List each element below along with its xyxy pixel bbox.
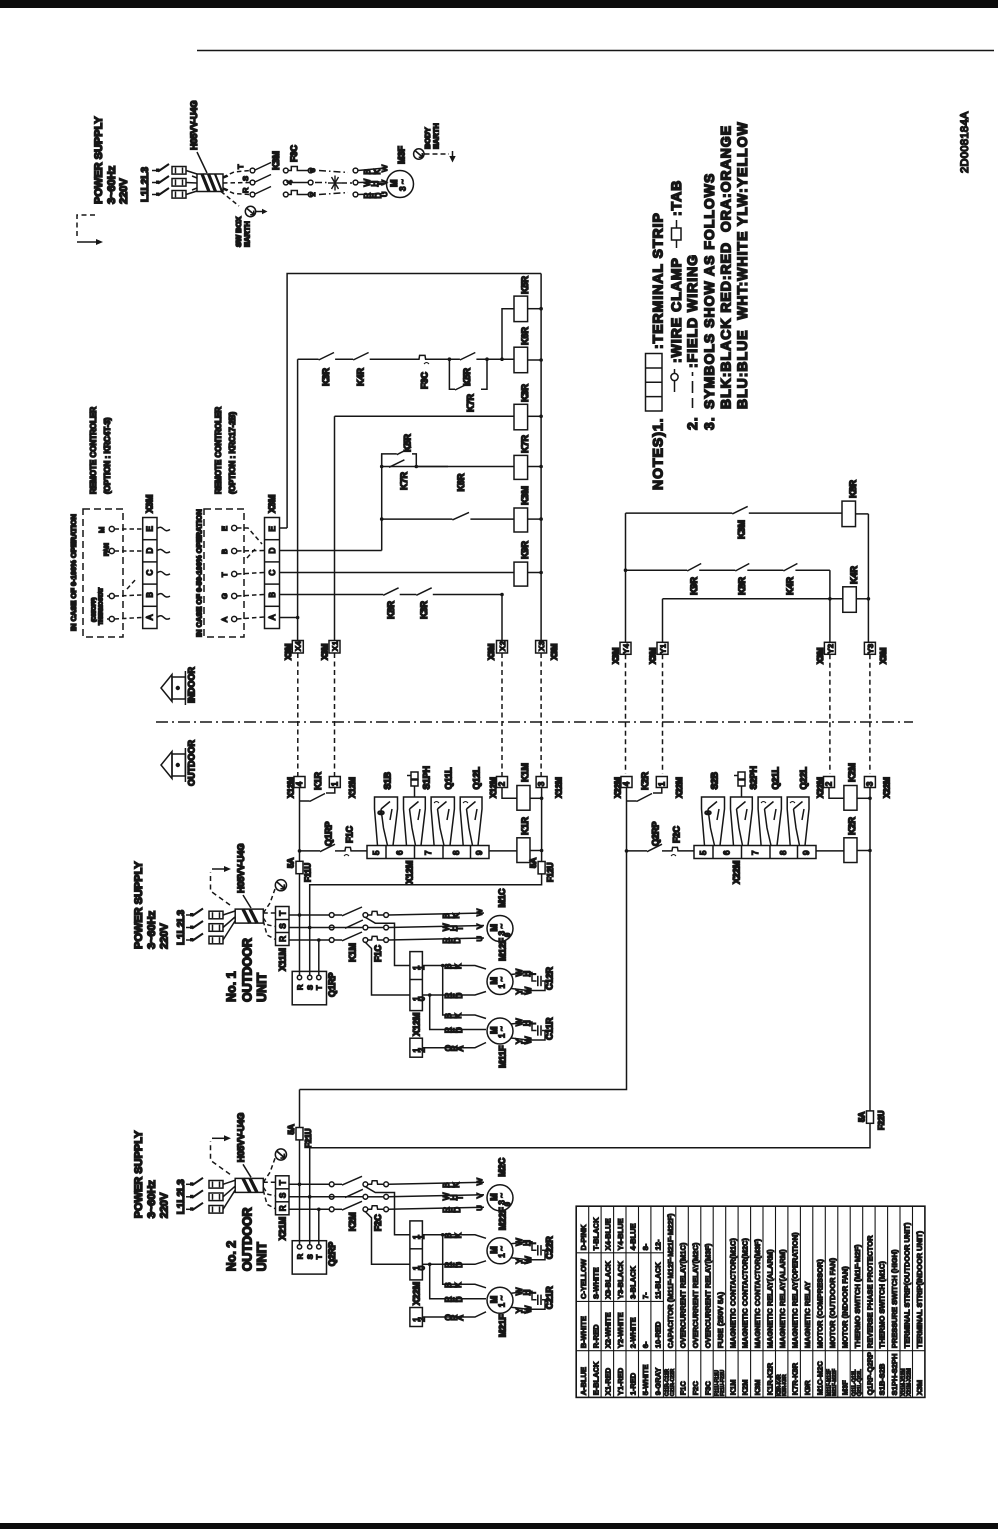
node bus junctions: [868, 797, 872, 853]
fan motor M22F: [487, 1238, 513, 1264]
legend row Q11L-Q12L: [851, 1244, 862, 1396]
svg-text:X3M: X3M: [267, 494, 277, 513]
svg-text:S1PH: S1PH: [422, 766, 432, 790]
contact K5R (rung1): [460, 353, 475, 387]
svg-text:X: X: [498, 646, 507, 651]
wire E row: [280, 527, 288, 529]
svg-text:B: B: [146, 592, 155, 597]
legend row K9R: [803, 1281, 812, 1395]
terminal X12M 4: [287, 777, 305, 799]
svg-text:X3M: X3M: [612, 647, 621, 664]
terminal X22M 2: [816, 777, 835, 799]
svg-text:2: 2: [826, 644, 835, 648]
contact K1R (alarm): [300, 771, 335, 850]
disconnect switch L2: [152, 176, 169, 184]
tap row3 to terminal 10: [365, 1212, 410, 1265]
svg-text:MAGNETIC CONTACTOR(M2C): MAGNETIC CONTACTOR(M2C): [741, 1238, 750, 1349]
svg-text:H05VV-U4G: H05VV-U4G: [236, 843, 246, 893]
svg-text:TERMINAL STRIP(OUTDOOR UNIT): TERMINAL STRIP(OUTDOOR UNIT): [903, 1222, 912, 1348]
svg-text:C-YELLOW: C-YELLOW: [579, 1258, 588, 1299]
svg-text:OUTDOOR: OUTDOOR: [187, 740, 197, 786]
node bus junctions: [540, 797, 544, 853]
svg-text:K4R: K4R: [849, 565, 859, 584]
disconnect switch row1 (unit1): [186, 909, 223, 919]
tap row1 to terminal 11: [365, 1187, 410, 1235]
svg-text:RED: RED: [442, 938, 462, 944]
svg-text:R: R: [278, 1205, 287, 1211]
svg-text:K5R: K5R: [403, 433, 413, 452]
svg-text:RED: RED: [444, 1262, 464, 1268]
svg-text:Y: Y: [658, 649, 667, 654]
terminal X22M 1: [656, 777, 684, 799]
wire color labels (unit2 compressor): [442, 1182, 464, 1213]
svg-text:G: G: [220, 593, 229, 599]
contactor coil K1M: [502, 763, 542, 810]
relay coil K7R: [514, 434, 541, 479]
svg-text:C: C: [268, 570, 277, 576]
phase sense wires to Q1RP: [300, 915, 319, 976]
label No.1 OUTDOOR UNIT: [225, 1207, 270, 1271]
terminal X12M 1: [329, 777, 357, 799]
svg-text:1: 1: [658, 644, 667, 648]
tap row1 to terminal 11: [365, 917, 410, 965]
rc2 dashed wiring to strip: [237, 528, 264, 619]
svg-text:3: 3: [399, 186, 408, 191]
rc1 terminals: [109, 526, 114, 621]
label No.1 OUTDOOR UNIT: [225, 938, 270, 1002]
svg-text:MOTOR (INDOOR FAN): MOTOR (INDOOR FAN): [840, 1266, 849, 1348]
terminal strip X22M 5-9: [694, 846, 816, 859]
fuse L2: [172, 179, 186, 187]
svg-text:C11R: C11R: [545, 1017, 555, 1040]
svg-text:~: ~: [498, 924, 507, 929]
svg-text:E: E: [220, 526, 229, 531]
svg-text:H05VV-U4G: H05VV-U4G: [189, 100, 199, 150]
svg-text:C21R-C22R: C21R-C22R: [670, 1368, 676, 1396]
pressure switch S2PH: [731, 766, 759, 846]
svg-text:RED: RED: [442, 1207, 462, 1213]
disconnect switch row3 (unit2): [186, 1203, 223, 1213]
field wiring dashed arrow (unit2): [211, 1135, 232, 1174]
svg-text:IN CASE OF 0-50-100% OPERATION: IN CASE OF 0-50-100% OPERATION: [195, 509, 204, 637]
svg-text:BLK: BLK: [444, 1282, 463, 1288]
svg-text:X22M: X22M: [883, 777, 892, 798]
svg-text:Q21L-Q22L: Q21L-Q22L: [857, 1369, 863, 1396]
svg-text:Q2RP: Q2RP: [651, 821, 661, 846]
svg-text:BLK: BLK: [444, 1013, 463, 1019]
label H05VV-U4G (unit1): [236, 843, 251, 908]
svg-text:3~60Hz: 3~60Hz: [146, 910, 158, 949]
svg-text:E: E: [268, 526, 277, 531]
rung 5 wire C row: [280, 572, 515, 574]
svg-text:(OPTION : KRC17-2B): (OPTION : KRC17-2B): [228, 411, 237, 494]
svg-text:K9R: K9R: [803, 1380, 812, 1396]
svg-text:MAGNETIC RELAY(ALARM): MAGNETIC RELAY(ALARM): [778, 1249, 787, 1348]
svg-text:INDOOR: INDOOR: [187, 666, 197, 703]
svg-text:A: A: [268, 614, 277, 620]
svg-text:F1C: F1C: [373, 944, 383, 962]
svg-text:K1R: K1R: [520, 816, 530, 835]
svg-text:B-WHITE: B-WHITE: [579, 1316, 588, 1348]
svg-text:BLK: BLK: [444, 1232, 463, 1238]
contact K8R: [735, 564, 749, 596]
svg-text:M22F: M22F: [498, 1207, 508, 1231]
thermo switch Q11L: [431, 767, 454, 846]
svg-text:EARTH: EARTH: [243, 221, 252, 247]
svg-text:S2B: S2B: [710, 771, 720, 789]
svg-text:X3M: X3M: [284, 643, 293, 660]
svg-text:S: S: [241, 176, 250, 181]
svg-text:6: 6: [396, 850, 405, 855]
wires terminals to fans (unit1): [422, 966, 486, 1048]
terminal strip X12M 5-9: [367, 846, 489, 859]
svg-text:5A: 5A: [287, 1124, 296, 1134]
wires to compressor (unit1): [389, 913, 485, 940]
legend row M11F-M12F: [827, 1257, 838, 1396]
svg-text:OUTDOOR: OUTDOOR: [241, 1207, 255, 1271]
svg-text:K1M: K1M: [728, 1379, 737, 1395]
svg-text:(ON/OFF): (ON/OFF): [92, 597, 98, 622]
relay coil K5R: [514, 275, 541, 321]
svg-text:K2R: K2R: [847, 816, 857, 835]
svg-text:A: A: [146, 614, 155, 620]
contact K3R: [319, 353, 334, 387]
contact K2R (alarm): [627, 771, 662, 850]
svg-text:8: 8: [779, 850, 788, 855]
svg-text:Q21L: Q21L: [771, 766, 781, 789]
svg-text:R: R: [241, 187, 250, 193]
svg-text:X3-BLACK: X3-BLACK: [604, 1260, 613, 1299]
svg-text:K6R: K6R: [520, 326, 530, 345]
wire vertical to X4: [297, 359, 299, 640]
capacitor C12R: [511, 966, 555, 994]
legend wire codes col 3: [604, 1218, 613, 1395]
terminal X22M 12: [410, 1308, 427, 1327]
svg-text:Y: Y: [826, 649, 835, 654]
svg-text:S1B: S1B: [383, 771, 393, 789]
svg-text:RED: RED: [444, 1027, 464, 1033]
svg-text:1: 1: [330, 781, 339, 786]
svg-text:No. 2: No. 2: [225, 1241, 239, 1272]
legend row K1M: [728, 1238, 737, 1396]
svg-text:Y: Y: [866, 649, 875, 654]
node rung1 junctions: [448, 357, 504, 361]
svg-text:K1M: K1M: [348, 943, 358, 962]
svg-text:~: ~: [498, 977, 507, 982]
svg-text:F11U: F11U: [304, 863, 313, 882]
terminal strip X3M (rc1): [143, 518, 157, 629]
svg-text:F2C: F2C: [373, 1214, 383, 1232]
legend row K1R-K2R: [766, 1249, 775, 1395]
node rung2 junction: [624, 568, 628, 572]
svg-text:M3F: M3F: [840, 1380, 849, 1395]
label BODY EARTH: [423, 123, 441, 149]
svg-text:W: W: [380, 164, 389, 172]
svg-text:ORA: ORA: [444, 1045, 465, 1051]
right bus wire: [869, 788, 871, 1111]
svg-text:T-BLACK: T-BLACK: [591, 1217, 600, 1250]
legend row F1C: [678, 1242, 687, 1395]
svg-text:MOTOR (COMPRESSOR): MOTOR (COMPRESSOR): [815, 1259, 824, 1349]
terminal strip X12M 11/10: [410, 952, 427, 1011]
svg-text:W: W: [475, 908, 484, 916]
fan wire color labels (M11F): [444, 1013, 465, 1052]
dashed leads clamp to strip (unit2): [263, 1182, 275, 1209]
fuse F21U 5A: [287, 1090, 313, 1185]
legend wire codes col 4: [616, 1218, 625, 1395]
wire vertical D-branch: [280, 454, 382, 551]
svg-text:X21M-X22M: X21M-X22M: [907, 1368, 913, 1396]
svg-text:X2-WHITE: X2-WHITE: [604, 1312, 613, 1348]
contact Q1RP + fuse F1C on rung: [300, 821, 368, 856]
divider dash-dot line: [156, 721, 913, 723]
terminal X12M 12: [410, 1038, 427, 1057]
svg-text:3: 3: [866, 644, 875, 648]
svg-text:K2M: K2M: [348, 1212, 358, 1231]
svg-text:K3R: K3R: [520, 383, 530, 402]
terminal Y2: [816, 642, 835, 664]
svg-text:1: 1: [498, 1253, 507, 1258]
node rung junction: [298, 849, 302, 853]
svg-text:POWER SUPPLY: POWER SUPPLY: [133, 861, 145, 949]
svg-text:X12M: X12M: [555, 777, 564, 798]
motor M3F: [387, 171, 414, 198]
reverse phase protector Q2RP: [292, 1241, 337, 1274]
label SW BOX EARTH: [234, 217, 252, 247]
svg-text:X12M: X12M: [489, 777, 498, 798]
svg-text:M21F-M22F: M21F-M22F: [832, 1369, 838, 1396]
svg-text:1: 1: [657, 781, 666, 786]
svg-text:OUTDOOR: OUTDOOR: [241, 938, 255, 1002]
svg-text:X3M: X3M: [816, 647, 825, 664]
svg-text:K7R-K8R: K7R-K8R: [791, 1362, 800, 1395]
disconnect switch row1 (unit2): [186, 1178, 223, 1188]
legend wire codes col 5: [629, 1223, 638, 1395]
svg-text:Q1RP-Q2RP: Q1RP-Q2RP: [865, 1352, 874, 1395]
svg-text:F2C: F2C: [691, 1381, 700, 1396]
svg-text:F1C: F1C: [678, 1381, 687, 1396]
svg-text:9: 9: [802, 850, 811, 855]
compressor terminal labels W V U: [475, 1177, 484, 1211]
field wiring dashed arrow (unit1): [211, 866, 232, 905]
page top black bar: [0, 0, 998, 8]
svg-text:TERMINAL STRIP(INDOOR UNIT): TERMINAL STRIP(INDOOR UNIT): [915, 1230, 924, 1348]
node rung3 junctions: [380, 465, 418, 469]
svg-text:V: V: [475, 924, 484, 929]
fan wire color labels (M21F): [444, 1282, 465, 1321]
svg-text:R: R: [295, 984, 304, 990]
wires terminals to fans (unit2): [422, 1235, 486, 1317]
legend row X3M: [915, 1230, 924, 1395]
relay coil K6R: [514, 326, 541, 372]
svg-text:11-BLACK: 11-BLACK: [654, 1262, 663, 1299]
overcurrent relay F3C elements: [288, 167, 308, 195]
notes line 2: wire clamp symbol: [671, 369, 678, 392]
capacitor C21R: [511, 1286, 555, 1314]
svg-text:K4R: K4R: [785, 576, 795, 595]
right rail wire: [867, 514, 869, 642]
terminal strip symbol: [646, 354, 663, 412]
indoor house icon: [161, 671, 185, 705]
svg-text:X12M: X12M: [412, 1012, 422, 1036]
svg-text:K3M: K3M: [753, 1379, 762, 1395]
svg-text:Y3-BLACK: Y3-BLACK: [616, 1260, 625, 1299]
svg-text:T: T: [220, 572, 229, 577]
node rung3 junction: [828, 597, 832, 601]
legend wire codes col 2: [591, 1217, 600, 1395]
svg-text:K8R: K8R: [737, 576, 747, 595]
contactor coil K3M: [514, 486, 541, 532]
svg-text:S1B-S2B: S1B-S2B: [878, 1363, 887, 1395]
phase sense wires to Q2RP: [300, 1184, 319, 1245]
wire clamp (unit2): [223, 1178, 263, 1209]
svg-text:~: ~: [498, 1246, 507, 1251]
rung 3 wire: [382, 466, 514, 468]
svg-text:K3M: K3M: [271, 151, 281, 170]
legend row M1C-M2C: [815, 1259, 824, 1396]
terminal strip X21M: [276, 1176, 290, 1215]
svg-text:7: 7: [424, 850, 433, 855]
contact K8R: [383, 588, 398, 619]
thermo switch Q21L: [758, 766, 781, 845]
terminal X22M 3: [864, 777, 891, 799]
label H05VV-U4G: [189, 100, 207, 173]
svg-text:K3R: K3R: [419, 600, 429, 619]
relay coil K9R: [514, 540, 541, 586]
rc1 internal switch lines: [107, 596, 109, 619]
svg-text:MAGNETIC CONTACTOR(M1C): MAGNETIC CONTACTOR(M1C): [728, 1238, 737, 1349]
svg-text:1-RED: 1-RED: [629, 1372, 638, 1395]
svg-text:X21M: X21M: [278, 1217, 288, 1241]
svg-text:PRESSURE SWITCH (HIGH): PRESSURE SWITCH (HIGH): [890, 1249, 899, 1348]
wire color labels (unit1 compressor): [442, 913, 464, 944]
legend wire codes col 6: [641, 1243, 650, 1395]
svg-text:WHT: WHT: [515, 1238, 537, 1246]
node A junction: [296, 616, 300, 620]
pigtail squiggles: [157, 527, 170, 619]
field wires indoor to outdoor unit1: [298, 653, 541, 777]
svg-text:MOTOR (OUTDOOR FAN): MOTOR (OUTDOOR FAN): [828, 1257, 837, 1348]
rung 4 wire: [382, 518, 514, 520]
rc2 terminal labels: [220, 526, 229, 622]
svg-text:K3M: K3M: [737, 520, 747, 539]
svg-text:M1C: M1C: [497, 888, 507, 908]
legend row K2M: [741, 1238, 750, 1396]
phase wires rows (unit1): [289, 913, 363, 943]
svg-text:1: 1: [330, 641, 339, 645]
node rung4 junction: [380, 517, 384, 521]
svg-text:No. 1: No. 1: [225, 971, 239, 1002]
svg-text:U: U: [475, 1205, 484, 1210]
svg-text:9: 9: [475, 850, 484, 855]
svg-text:10: 10: [412, 996, 426, 1001]
svg-text:2: 2: [498, 641, 507, 645]
svg-text:Q22L: Q22L: [799, 766, 809, 789]
svg-text:~: ~: [498, 1295, 507, 1300]
svg-text:T: T: [315, 1254, 324, 1259]
contact K6R: [452, 473, 469, 520]
top rule line: [197, 50, 994, 52]
svg-text:Q1RP: Q1RP: [327, 972, 337, 997]
svg-text:X12M: X12M: [348, 777, 357, 798]
protective earth (unit2): [263, 1149, 286, 1182]
dashed earth lead with arrow: [425, 151, 456, 163]
right bus wire: [541, 788, 543, 862]
svg-text:8-: 8-: [641, 1243, 650, 1250]
overcurrent F1C elements (unit1): [368, 911, 389, 962]
svg-text:K5R-K6R: K5R-K6R: [782, 1374, 788, 1396]
svg-text:B: B: [220, 549, 229, 554]
rung 3 wire: [663, 599, 843, 643]
svg-text:X4-BLUE: X4-BLUE: [604, 1218, 613, 1250]
terminal X3: [536, 641, 559, 661]
wire A row: [280, 617, 298, 619]
svg-text:D-PINK: D-PINK: [579, 1224, 588, 1250]
wires fuses to clamp: [186, 171, 197, 195]
node phase taps: [298, 913, 321, 942]
wire left rail down: [300, 851, 627, 1090]
svg-text:M: M: [389, 180, 399, 188]
svg-text:~: ~: [498, 1193, 507, 1198]
svg-text:M11F: M11F: [498, 1045, 508, 1068]
svg-text:3.: 3.: [701, 416, 717, 430]
wires to compressor (unit2): [389, 1182, 485, 1209]
svg-text:K9R: K9R: [520, 540, 530, 559]
svg-text:7-: 7-: [641, 1292, 650, 1299]
svg-text:WHT: WHT: [515, 1287, 537, 1295]
disconnect switch row2 (unit1): [186, 921, 223, 931]
svg-text:UNIT: UNIT: [255, 1242, 269, 1272]
svg-text:B: B: [268, 592, 277, 597]
svg-text:RED: RED: [444, 993, 464, 999]
overcurrent F2C elements (unit2): [368, 1181, 389, 1232]
svg-text:FAN: FAN: [104, 543, 111, 556]
svg-text:CAPACITOR (M11F·M12F·M21F·M22F: CAPACITOR (M11F·M12F·M21F·M22F): [666, 1213, 675, 1348]
legend row F3C: [703, 1243, 712, 1395]
svg-text:A: A: [220, 617, 229, 622]
contact K3R (B row): [416, 588, 431, 619]
svg-text:OVERCURRENT RELAY(M3F): OVERCURRENT RELAY(M3F): [703, 1243, 712, 1348]
svg-text::FIELD WIRING: :FIELD WIRING: [684, 254, 700, 368]
svg-text:X: X: [294, 646, 303, 651]
legend row C11R-C12R: [665, 1213, 676, 1396]
svg-text:S: S: [278, 1193, 287, 1198]
remote controller 2 dashed box: [204, 509, 244, 637]
svg-text:REVERSE PHASE PROTECTOR: REVERSE PHASE PROTECTOR: [865, 1235, 874, 1348]
legend wire codes col 1: [579, 1224, 588, 1395]
svg-text:K1M: K1M: [520, 763, 530, 782]
svg-text:L1L2L3: L1L2L3: [176, 910, 187, 945]
svg-text:12-: 12-: [654, 1239, 663, 1250]
svg-text:5-WHITE: 5-WHITE: [641, 1364, 650, 1395]
svg-text:8: 8: [452, 850, 461, 855]
svg-text:POWER SUPPLY: POWER SUPPLY: [93, 116, 105, 204]
svg-text:MAGNETIC RELAY: MAGNETIC RELAY: [803, 1281, 812, 1348]
svg-text:THERMO SWITCH (M1C): THERMO SWITCH (M1C): [878, 1261, 887, 1349]
svg-text:X22M: X22M: [816, 777, 825, 798]
svg-text:(OPTION : KRC4T-3): (OPTION : KRC4T-3): [103, 417, 112, 494]
svg-text:~: ~: [498, 1026, 507, 1031]
svg-text:K3M: K3M: [520, 486, 530, 505]
terminal X22M 4: [614, 777, 632, 799]
svg-text:POWER SUPPLY: POWER SUPPLY: [133, 1130, 145, 1218]
svg-text:θ: θ: [704, 810, 713, 815]
svg-text:220V: 220V: [159, 923, 171, 949]
terminals 6 4 2: [285, 168, 317, 197]
svg-text:K7R: K7R: [399, 471, 409, 490]
terminal X12M 3: [536, 777, 563, 799]
node right rail junction: [867, 597, 871, 601]
